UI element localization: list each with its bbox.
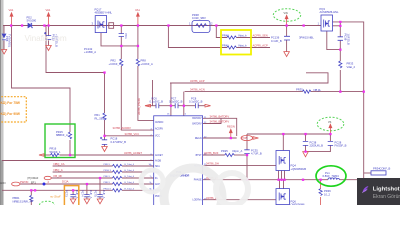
green highlight box bbox=[45, 124, 75, 158]
wire HDRV row bbox=[203, 164, 276, 166]
wire Q4 source legs bbox=[278, 171, 280, 180]
svg-text:6BBKF_A: 6BBKF_A bbox=[56, 133, 68, 137]
boost capacitor PC35 bbox=[244, 150, 249, 154]
gate resistor PR beside PQ17 bbox=[109, 23, 114, 29]
capacitor PC136 bbox=[284, 36, 290, 40]
capacitor PC28 bbox=[328, 141, 333, 145]
wire ACN tap up bbox=[183, 92, 185, 106]
svg-text:KΩ) For 90W: KΩ) For 90W bbox=[1, 112, 20, 116]
svg-text:E_Tdat_4: E_Tdat_4 bbox=[125, 175, 135, 178]
resistor PR33 bbox=[339, 61, 342, 68]
svg-text:PWON: PWON bbox=[20, 180, 28, 184]
wire row A resistor out bbox=[237, 37, 271, 39]
mosfet PQ17 bbox=[95, 16, 106, 33]
wire column x=121 PC132 / PR2 / ACDRV bbox=[120, 26, 122, 34]
wire series cap row above IC bbox=[148, 105, 157, 107]
svg-text:BTST: BTST bbox=[196, 155, 202, 157]
wire bottom cap column 2 bbox=[86, 184, 88, 195]
capacitor bottom col2 bbox=[84, 195, 89, 197]
svg-text:[H] KMAF: [H] KMAF bbox=[28, 177, 39, 180]
wire PR36 column bbox=[320, 180, 322, 189]
wire SMBus row1 bbox=[53, 165, 113, 167]
wire drop to Q4 drain bbox=[282, 134, 284, 151]
svg-text:4.7UF_B: 4.7UF_B bbox=[251, 151, 262, 155]
wire LODRV row bbox=[203, 199, 276, 201]
svg-text:ACPRI_SEN: ACPRI_SEN bbox=[253, 34, 268, 38]
svg-text:PR8 3: PR8 3 bbox=[104, 182, 111, 184]
svg-text:Ekran Görünt: Ekran Görünt bbox=[373, 194, 400, 200]
port arrow cap row right bbox=[205, 104, 211, 107]
capacitor PC33 bbox=[44, 32, 51, 40]
wire AVDB full-width row bbox=[2, 160, 154, 162]
svg-text:Vdat_b: Vdat_b bbox=[238, 34, 247, 38]
capacitor PC38 bbox=[303, 141, 308, 145]
svg-text:VA1: VA1 bbox=[46, 8, 51, 12]
orange no-stuff box bbox=[64, 186, 78, 207]
wire row4 DCIN bbox=[20, 183, 113, 185]
off-page oval KB bbox=[44, 176, 51, 179]
wire TVS diode column bbox=[3, 26, 5, 34]
ground below TVS bbox=[2, 50, 7, 55]
wire REGN row bbox=[203, 137, 237, 139]
svg-text:AVDB: AVDB bbox=[155, 159, 162, 162]
svg-text:VIN: VIN bbox=[284, 12, 288, 15]
wire yellow box row A feed bbox=[216, 26, 227, 38]
wire row3 KB bbox=[51, 177, 113, 179]
ground below PC18 bbox=[102, 147, 108, 152]
power flag VS in dashed ellipse bbox=[317, 117, 344, 131]
ground below PC38 bbox=[303, 152, 309, 157]
IC right pin names bbox=[192, 117, 202, 201]
svg-text:34786_ACN: 34786_ACN bbox=[190, 88, 205, 92]
wire bottom cap column 3 bbox=[99, 178, 101, 195]
svg-text:SV1080: SV1080 bbox=[27, 19, 37, 23]
svg-text:NBQ_A: NBQ_A bbox=[54, 168, 63, 172]
series capacitor PC7 bbox=[175, 103, 178, 108]
wire PHASE row bbox=[203, 179, 328, 181]
svg-text:PR41: PR41 bbox=[222, 44, 229, 48]
wire SMBus row2 bbox=[53, 171, 113, 173]
wire PBR1 pulldown column bbox=[30, 190, 32, 195]
resistor PR divider upper on col 104 bbox=[103, 113, 106, 120]
wire PQ17 source down and across bbox=[101, 33, 138, 46]
svg-text:Vdat_b: Vdat_b bbox=[238, 44, 247, 48]
wire Q6 source legs bbox=[279, 204, 281, 207]
inductor PL1 bbox=[328, 178, 339, 180]
watermark swirl logo bbox=[141, 168, 248, 226]
svg-text:E_Tdat_4: E_Tdat_4 bbox=[125, 187, 135, 190]
wire PHASE after inductor bbox=[340, 179, 359, 181]
svg-text:+COKF_A: +COKF_A bbox=[141, 62, 154, 66]
resistor PR16 horizontal in green box bbox=[51, 153, 59, 156]
resistor PR35 on ACN run bbox=[303, 90, 312, 93]
svg-text:PR9 3: PR9 3 bbox=[104, 164, 111, 166]
wire node column at x=340 bbox=[339, 22, 341, 37]
svg-text:10_2: 10_2 bbox=[324, 192, 330, 196]
wire main top rail VA1 bbox=[3, 25, 321, 27]
TVS diode PD8 bbox=[2, 34, 6, 40]
svg-text:34786_ACP: 34786_ACP bbox=[190, 79, 205, 83]
port arrow cap row left bbox=[145, 104, 151, 107]
svg-text:SDA: SDA bbox=[155, 165, 160, 168]
wire bottom cap column 1 bbox=[72, 190, 74, 194]
resistor PBR1 bbox=[30, 195, 33, 201]
svg-text:VA1: VA1 bbox=[9, 8, 14, 12]
yellow highlight box bbox=[221, 30, 251, 55]
svg-text:KΩ) For 75W: KΩ) For 75W bbox=[1, 101, 20, 105]
svg-text:ACDET: ACDET bbox=[155, 154, 163, 157]
svg-text:34786_BATDRV: 34786_BATDRV bbox=[210, 114, 230, 118]
svg-text:0.1u50C_B: 0.1u50C_B bbox=[189, 99, 203, 103]
svg-text:0.01F_SBV: 0.01F_SBV bbox=[192, 16, 206, 20]
series capacitor PC8 bbox=[195, 103, 198, 108]
wire PC136 cap column bbox=[286, 26, 288, 37]
green dashed ellipse bottom left bbox=[40, 201, 55, 209]
svg-text:0.1u50C_B: 0.1u50C_B bbox=[150, 99, 164, 103]
svg-text:REGN: REGN bbox=[227, 125, 235, 129]
ground bottom col2 bbox=[84, 199, 90, 204]
svg-text:EP1: EP1 bbox=[31, 181, 36, 184]
svg-text:COKF_B: COKF_B bbox=[380, 167, 391, 171]
svg-text:IN-: IN- bbox=[155, 178, 158, 180]
svg-text:51FKF_1: 51FKF_1 bbox=[50, 150, 62, 154]
svg-text:6.8UF_7WR4: 6.8UF_7WR4 bbox=[323, 174, 340, 178]
svg-text:0.47UZ5V_B: 0.47UZ5V_B bbox=[111, 140, 127, 144]
svg-text:PR6 3: PR6 3 bbox=[104, 176, 111, 178]
resistor PR40 row A bbox=[227, 36, 237, 39]
svg-text:Vdpm_A: Vdpm_A bbox=[232, 149, 243, 153]
resistor PR36 bbox=[319, 189, 322, 196]
svg-text:PR10 3: PR10 3 bbox=[104, 170, 112, 172]
svg-text:PHASE: PHASE bbox=[194, 179, 202, 182]
no-connect blue dot bbox=[43, 183, 46, 186]
capacitor bottom col1 bbox=[70, 195, 75, 197]
svg-text:2200U/6_B: 2200U/6_B bbox=[310, 144, 324, 148]
svg-text:Vinafix.com: Vinafix.com bbox=[25, 34, 67, 43]
svg-text:0.1UF_B: 0.1UF_B bbox=[271, 39, 282, 43]
wire row5 PWON full width bbox=[2, 189, 113, 191]
wire cap column PC33 bbox=[48, 26, 50, 36]
svg-text:+COKF_A: +COKF_A bbox=[109, 62, 122, 66]
svg-text:34786_ACDET: 34786_ACDET bbox=[124, 151, 142, 155]
svg-text:NRB1S1/R/K_4: NRB1S1/R/K_4 bbox=[13, 199, 32, 203]
ground below PC33 bbox=[46, 46, 52, 51]
svg-text:no Stuff: no Stuff bbox=[50, 195, 62, 199]
series capacitor PC6 bbox=[156, 103, 159, 108]
ground below PC136 bbox=[284, 52, 290, 57]
resistor PR41 row B bbox=[227, 46, 237, 49]
svg-text:+QM3054M6: +QM3054M6 bbox=[291, 167, 307, 171]
resistor PR8 bbox=[136, 59, 139, 66]
wire ACP tap up bbox=[170, 83, 172, 106]
svg-text:3PW15 NBL: 3PW15 NBL bbox=[299, 36, 314, 40]
Lightshot notification panel bbox=[357, 178, 400, 205]
svg-text:34786_VCC: 34786_VCC bbox=[125, 132, 140, 136]
svg-text:PR40: PR40 bbox=[222, 34, 229, 38]
mosfet PQ3 bbox=[321, 15, 333, 31]
wire stub PR34 bbox=[364, 172, 371, 174]
screenshot selection edge strip bbox=[0, 0, 4, 160]
wire yellow box row B feed bbox=[168, 26, 227, 48]
wire PQ3 gate bbox=[327, 31, 341, 50]
svg-text:KB_RF: KB_RF bbox=[54, 174, 63, 178]
wire BTST row bbox=[203, 154, 225, 156]
wire column x=138 VA1 / PR8 bbox=[137, 26, 139, 60]
svg-text:+1UBD_A: +1UBD_A bbox=[84, 50, 96, 54]
svg-text:NBQ_CA: NBQ_CA bbox=[54, 162, 65, 166]
power flag VA1 no2 bbox=[47, 13, 50, 26]
svg-text:ACPRI_ACP: ACPRI_ACP bbox=[253, 44, 268, 48]
IC left pin names bbox=[155, 122, 164, 198]
svg-text:ACM05M6-HNL: ACM05M6-HNL bbox=[320, 10, 339, 14]
wire VA1 drop no1 to staircase bbox=[12, 26, 71, 133]
ground bottom col1 bbox=[70, 199, 76, 204]
diode PD2 bbox=[28, 23, 33, 27]
svg-text:BATDRV: BATDRV bbox=[192, 122, 202, 125]
svg-text:Vdat_2: Vdat_2 bbox=[347, 65, 356, 69]
wire ACDET row bbox=[44, 154, 51, 156]
port arrow ACDET left bbox=[39, 154, 44, 156]
mosfet PQ6 low side bbox=[276, 189, 290, 205]
wire BATDRV row1 bbox=[203, 118, 237, 136]
svg-text:E_Tdat_4: E_Tdat_4 bbox=[125, 181, 135, 184]
resistor PR34 stub component bbox=[371, 171, 386, 175]
svg-text:34786_ACDRV: 34786_ACDRV bbox=[113, 126, 132, 130]
green solid ellipse around inductor bbox=[316, 166, 346, 186]
svg-text:AON: AON bbox=[0, 182, 6, 185]
wire cap-row feed drop bbox=[152, 80, 154, 106]
IC pin numbers bbox=[150, 114, 208, 201]
wire row B resistor out bbox=[237, 47, 271, 49]
orange dashed option box bbox=[0, 97, 26, 122]
svg-text:FA/25F_B: FA/25F_B bbox=[335, 144, 347, 148]
IC PU2 charger bbox=[154, 116, 203, 206]
svg-text:34786_BUF: 34786_BUF bbox=[204, 151, 219, 155]
svg-text:CMSRC: CMSRC bbox=[155, 122, 164, 124]
svg-text:E_Tdat_4: E_Tdat_4 bbox=[125, 169, 135, 172]
wire PQ3 source out bbox=[333, 25, 341, 27]
power flag VA1 no1 bbox=[10, 13, 13, 26]
mosfet PQ4 high side bbox=[276, 151, 290, 171]
resistor PR2 bbox=[120, 59, 123, 66]
wire net ACN sense bbox=[185, 91, 303, 93]
SMBus row resistors and labels bbox=[113, 164, 123, 192]
svg-text:34786_BATDRV: 34786_BATDRV bbox=[210, 120, 230, 124]
off-page oval PO8 out bbox=[241, 135, 253, 140]
svg-text:PR25: PR25 bbox=[221, 149, 228, 153]
resistor PR15 vertical in green box bbox=[68, 132, 71, 139]
power flag VA1 no3 bbox=[137, 13, 140, 26]
svg-text:E_Tdat_4: E_Tdat_4 bbox=[125, 163, 135, 166]
wire net ACP sense bbox=[170, 73, 328, 83]
svg-text:DCIA: DCIA bbox=[62, 179, 69, 183]
svg-text:VCC: VCC bbox=[155, 136, 160, 138]
power flag REGN bbox=[229, 129, 232, 138]
svg-text:VA1: VA1 bbox=[135, 8, 140, 12]
svg-text:PO8: PO8 bbox=[242, 136, 248, 140]
svg-text:4835BDY-HNL: 4835BDY-HNL bbox=[95, 11, 113, 15]
wire IC top pins bbox=[170, 106, 172, 116]
svg-text:REGN: REGN bbox=[195, 138, 202, 140]
capacitor on PQ3 gate node bbox=[338, 37, 343, 41]
wire cap PC28 column bbox=[329, 134, 331, 141]
wire PQ3 drain out to long vertical bbox=[333, 22, 364, 197]
svg-text:RL_5BB: RL_5BB bbox=[95, 116, 105, 120]
svg-text:QM3056M6: QM3056M6 bbox=[291, 203, 306, 206]
ground bottom col3 bbox=[97, 199, 103, 204]
power flag VIN in dashed ellipse bbox=[273, 9, 300, 22]
wire Q6 drain legs bbox=[279, 180, 281, 189]
wire VS rail horizontal bbox=[247, 133, 330, 135]
port arrow PO8 right bbox=[253, 137, 258, 140]
wire VCC row into IC bbox=[105, 135, 154, 137]
svg-text:VS: VS bbox=[328, 121, 332, 124]
wire BATDRV row2 bbox=[203, 118, 221, 123]
resistor PR25 bbox=[225, 153, 235, 156]
svg-text:34786_PSON: 34786_PSON bbox=[137, 98, 141, 115]
wire staircase no2 to VCC divider bbox=[46, 26, 105, 73]
wire cap PC38 column bbox=[305, 134, 307, 141]
svg-text:LODRVs: LODRVs bbox=[192, 200, 202, 202]
sense resistor PR38 bbox=[192, 21, 210, 33]
capacitor bottom col3 bbox=[97, 195, 102, 197]
svg-text:Lightshot: Lightshot bbox=[373, 187, 400, 193]
capacitor PC18 bbox=[100, 137, 107, 145]
wire BTST boost column bbox=[246, 134, 248, 150]
capacitor PC132 bbox=[119, 34, 124, 37]
svg-text:34786_DH: 34786_DH bbox=[206, 162, 219, 166]
svg-text:BATDRV: BATDRV bbox=[192, 117, 202, 120]
off-page oval PWON bbox=[12, 182, 20, 186]
svg-text:0.1u50C_B: 0.1u50C_B bbox=[169, 99, 183, 103]
svg-text:ACDRV: ACDRV bbox=[155, 127, 163, 130]
svg-text:PR35: PR35 bbox=[296, 88, 303, 92]
